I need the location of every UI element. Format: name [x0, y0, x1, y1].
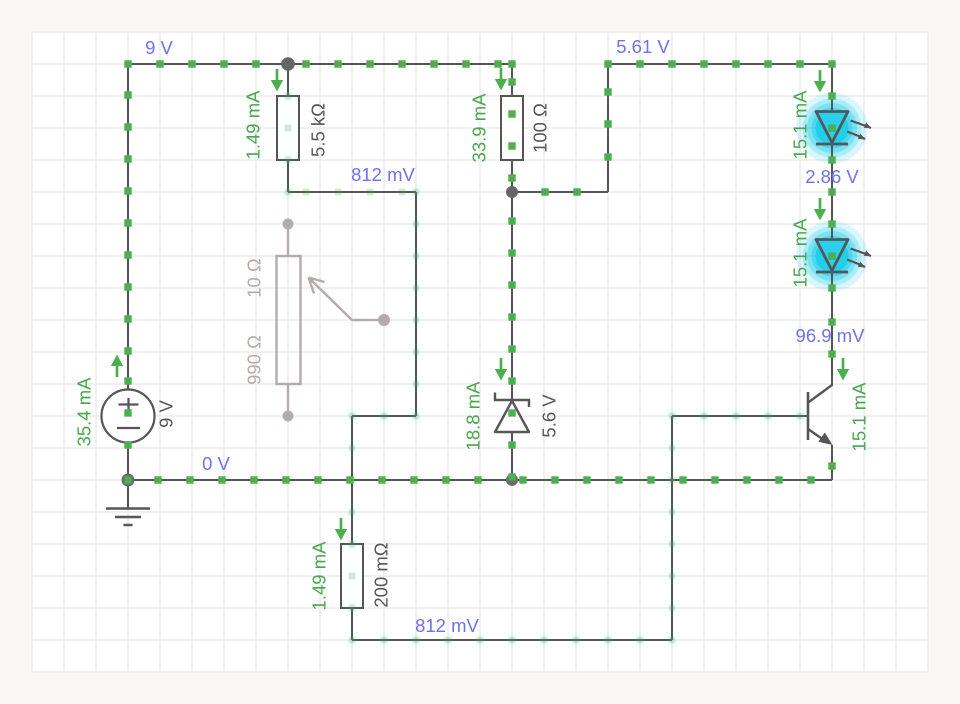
wire 0V rail (128,480)-(832,480): [128, 479, 832, 481]
svg-text:9 V: 9 V: [145, 37, 173, 58]
LED D1 glow: [797, 93, 868, 164]
current arrow LED2: [814, 198, 826, 221]
svg-text:18.8 mA: 18.8 mA: [462, 381, 483, 451]
wire (416,192)-(416,416): [415, 192, 417, 416]
svg-text:33.9 mA: 33.9 mA: [468, 93, 489, 163]
voltage source V1 9V (128,384)-(128,448): [102, 390, 155, 443]
svg-text:10 Ω: 10 Ω: [243, 258, 264, 298]
svg-text:5.61 V: 5.61 V: [616, 36, 670, 57]
svg-text:1.49 mA: 1.49 mA: [242, 90, 263, 160]
svg-text:15.1 mA: 15.1 mA: [789, 90, 810, 160]
current arrow zener: [495, 358, 507, 381]
node junction (288,64): [281, 57, 295, 71]
wire 5.61V (512,192)-(608,192): [512, 191, 608, 193]
wire source bottom (128,442)-(128,480): [127, 442, 129, 480]
node junction (512,480): [506, 474, 518, 486]
wire (608,192)-(608,64): [607, 64, 609, 192]
svg-text:5.5 kΩ: 5.5 kΩ: [307, 103, 328, 157]
svg-text:2.86 V: 2.86 V: [805, 166, 859, 187]
svg-text:35.4 mA: 35.4 mA: [73, 377, 94, 447]
current arrow R3: [335, 518, 347, 541]
svg-text:15.1 mA: 15.1 mA: [789, 218, 810, 288]
potentiometer VR1 (faded): [277, 219, 301, 422]
current arrow V1: [111, 355, 123, 378]
wire (352,416)-(352,512): [351, 416, 353, 512]
svg-text:100 Ω: 100 Ω: [529, 103, 550, 153]
potentiometer wiper arrow: [309, 278, 391, 327]
wire zener top (512,192)-(512,400): [511, 192, 513, 400]
current arrow LED1: [814, 70, 826, 93]
wire (416,416)-(352,416): [352, 415, 416, 417]
wire LED2 leads: [831, 192, 833, 240]
wire zener bottom (512,432)-(512,480): [511, 432, 513, 480]
svg-text:200 mΩ: 200 mΩ: [370, 542, 391, 607]
wire base (672,416)-(807,416): [672, 415, 807, 417]
svg-text:9 V: 9 V: [155, 399, 176, 427]
wire node 812mV horizontal (288,192)-(416,192): [288, 191, 416, 193]
wire left vertical (128,64)-(128,390): [127, 64, 129, 390]
transistor Q1 NPN: [808, 385, 833, 480]
svg-text:990 Ω: 990 Ω: [243, 335, 264, 385]
current dots low current: [285, 93, 804, 644]
LED D2 (832,192)-(832,320): [816, 240, 871, 273]
wire collector (832,320)-(832,386): [831, 320, 833, 386]
svg-text:1.49 mA: 1.49 mA: [308, 541, 329, 611]
resistor R2 100 (512,64)-(512,192): [501, 64, 523, 192]
current dots high current: [124, 60, 835, 483]
ground symbol: [106, 480, 150, 525]
svg-text:812 mV: 812 mV: [351, 164, 415, 185]
svg-text:812 mV: 812 mV: [415, 615, 479, 636]
LED D1 (832,64)-(832,192): [816, 112, 871, 145]
resistor R3 200m (352,512)-(352,640): [341, 512, 363, 640]
wire bottom 812mV (352,640)-(672,640): [352, 639, 672, 641]
zener diode D3 5.6V (512,384)-(512,448): [495, 393, 529, 433]
wire 9V rail top (128,64)-(512,64): [128, 63, 512, 65]
node junction (128,480): [122, 474, 135, 487]
node junction (512,192): [506, 186, 518, 198]
LED D2 glow: [797, 221, 868, 292]
current arrow R2: [495, 68, 507, 91]
wire LED1 leads: [831, 64, 833, 112]
current arrow R1: [271, 69, 283, 92]
svg-text:96.9 mV: 96.9 mV: [796, 325, 866, 346]
current arrow Q1: [837, 358, 849, 381]
wire (608,64)-(832,64): [608, 63, 832, 65]
svg-text:0 V: 0 V: [202, 453, 230, 474]
wire (672,640)-(672,416): [671, 416, 673, 640]
svg-text:15.1 mA: 15.1 mA: [848, 382, 869, 452]
svg-text:5.6 V: 5.6 V: [538, 394, 559, 438]
resistor R1 5.5k (288,64)-(288,192): [277, 64, 299, 192]
